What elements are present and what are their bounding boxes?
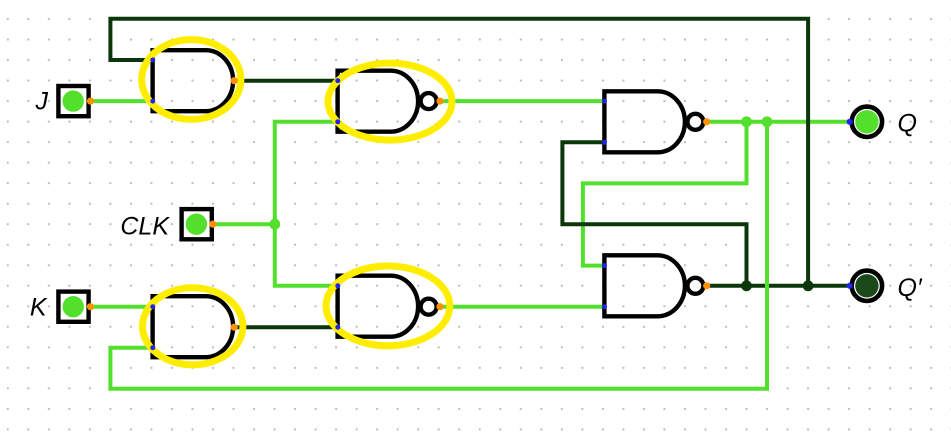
input pin CLK [182, 209, 212, 239]
svg-text:Q: Q [898, 110, 917, 138]
AND gate U3 [153, 296, 234, 357]
input port dot U2 bottom [335, 119, 340, 124]
output port dot J [87, 98, 94, 105]
NAND gate U6 [604, 255, 685, 316]
input port dot U4 top [335, 283, 340, 288]
wire: K pin to U3 top input (bright green) [91, 305, 153, 309]
wire: U3 output to U4 bottom input (dark green) [234, 325, 338, 329]
output port dot U1 [231, 77, 238, 84]
wire: U4 output to U6 bottom input (bright green) [439, 305, 605, 309]
output port dot CLK [209, 221, 216, 228]
input port dot Q' pin [847, 283, 853, 289]
svg-text:Q′: Q′ [898, 274, 923, 302]
input port dot U5 bottom [602, 140, 607, 145]
input port dot U3 top [150, 304, 155, 309]
svg-text:CLK: CLK [120, 212, 170, 240]
junction on Q net 2 [762, 116, 773, 127]
output port dot U5 [703, 118, 710, 125]
input port dot U4 bottom [335, 325, 340, 330]
junction on Q' net 1 [741, 280, 752, 291]
input port dot U1 bottom [150, 99, 155, 104]
wire: Q feedback lower branch down/left/up to U3 bottom input (bright green) [110, 122, 767, 389]
output port dot U3 [231, 324, 238, 331]
output port dot U2 [436, 98, 443, 105]
input port dot U5 top [602, 99, 607, 104]
wire: cross-couple from U6 output net to U5 bottom input (dark green) [562, 142, 746, 285]
wire: J pin to U1 bottom input (bright green) [91, 99, 153, 103]
svg-text:K: K [30, 294, 48, 322]
junction on Q net 1 [741, 116, 752, 127]
input port dot U6 top [602, 263, 607, 268]
svg-text:J: J [35, 88, 49, 116]
wire: Q feedback upper branch to U6 top input (bright green, drawn under dark wires) [583, 122, 747, 266]
input port dot U1 top [150, 58, 155, 63]
wire: U2 output to U5 top input (bright green) [439, 99, 605, 103]
wire: Q' output net to Q' pin (dark green) [704, 284, 849, 288]
highlight ellipse E4 around U4 [326, 266, 450, 346]
NAND gate U5 [604, 91, 685, 152]
wire: CLK junction up to U2 bottom input (bright green) [275, 122, 338, 224]
input port dot U6 bottom [602, 304, 607, 309]
output port dot U4 [436, 303, 443, 310]
highlight ellipse E3 around U3 [143, 288, 243, 365]
wire: U1 output to U2 top input (dark green) [234, 79, 338, 83]
NAND gate U2 [338, 71, 418, 132]
input pin J [58, 86, 88, 116]
wire: Q output net to Q pin (bright green) [704, 120, 849, 124]
output port dot U6 [703, 282, 710, 289]
output pin Q' [852, 271, 882, 301]
output pin Q [852, 107, 882, 137]
highlight ellipse E2 around U2 [328, 63, 452, 140]
highlight ellipse E1 around U1 [142, 40, 241, 120]
wire: CLK pin to junction (bright green) [213, 222, 275, 226]
output port dot K [87, 303, 94, 310]
input port dot Q pin [847, 119, 853, 125]
wire: CLK junction down to U4 top input (bright green) [275, 224, 338, 286]
junction on Q' net 2 [803, 280, 814, 291]
NAND gate U4 [338, 276, 419, 337]
input port dot U2 top [335, 78, 340, 83]
input port dot U3 bottom [150, 345, 155, 350]
input pin K [58, 292, 88, 322]
junction on CLK net [269, 219, 280, 230]
AND gate U1 [153, 50, 233, 111]
wire: Q' feedback up/over/down to U1 top input (dark green) [110, 19, 808, 286]
